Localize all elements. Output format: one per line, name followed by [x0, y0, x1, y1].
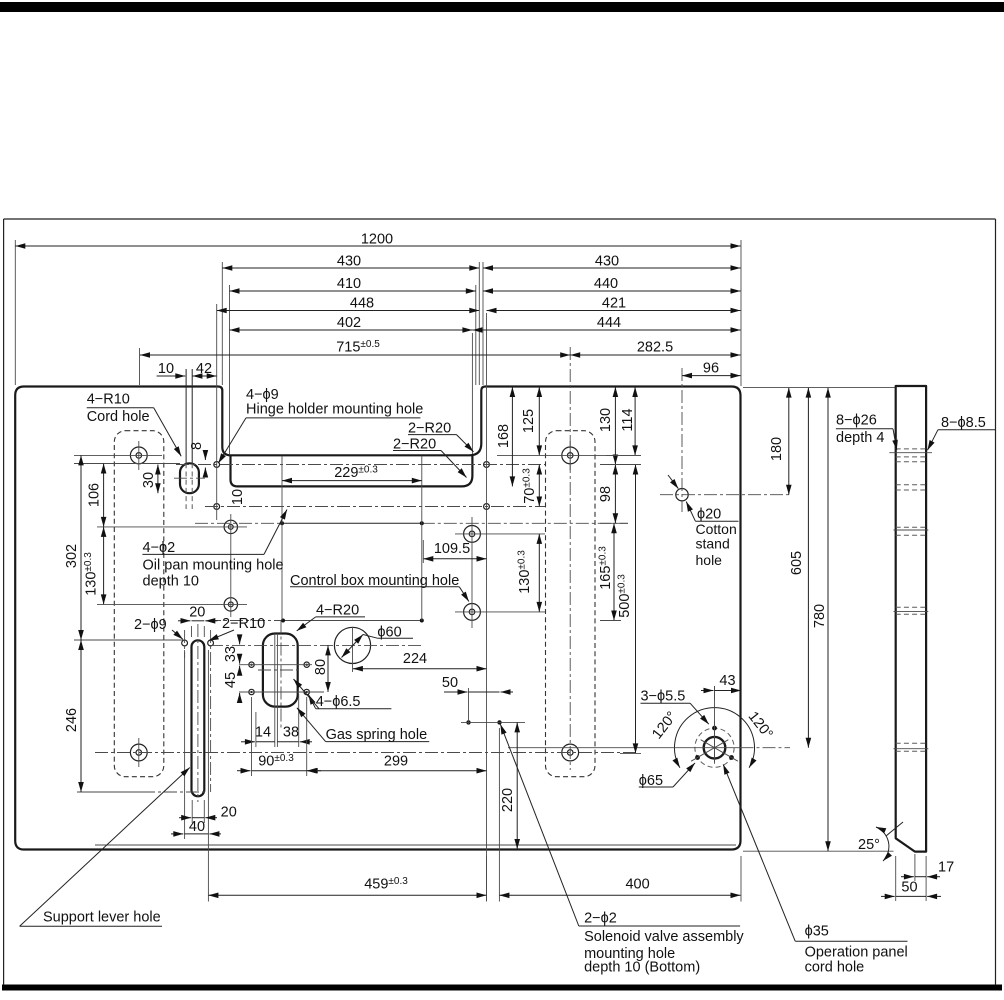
svg-text:168: 168: [496, 424, 512, 448]
svg-text:246: 246: [64, 708, 80, 732]
svg-text:Operation panel: Operation panel: [805, 945, 908, 961]
svg-text:430: 430: [595, 254, 619, 270]
svg-text:30: 30: [141, 472, 157, 488]
svg-text:33: 33: [223, 646, 239, 662]
svg-text:40: 40: [189, 819, 205, 835]
svg-text:42: 42: [196, 361, 212, 377]
svg-text:14: 14: [255, 725, 271, 741]
svg-text:410: 410: [337, 276, 361, 292]
svg-text:282.5: 282.5: [637, 340, 673, 356]
svg-text:780: 780: [812, 604, 828, 628]
svg-text:depth 10: depth 10: [143, 574, 199, 590]
svg-text:stand: stand: [696, 536, 730, 552]
svg-text:Cord hole: Cord hole: [87, 409, 150, 425]
svg-text:402: 402: [337, 315, 361, 331]
svg-text:depth 10 (Bottom): depth 10 (Bottom): [584, 959, 700, 975]
svg-text:Hinge holder mounting hole: Hinge holder mounting hole: [246, 402, 423, 418]
svg-text:106: 106: [87, 483, 103, 507]
svg-text:10: 10: [230, 489, 246, 505]
svg-text:220: 220: [500, 788, 516, 812]
svg-text:50: 50: [901, 880, 917, 896]
svg-text:2−ϕ9: 2−ϕ9: [134, 617, 167, 633]
svg-text:hole: hole: [696, 552, 723, 568]
svg-text:38: 38: [283, 725, 299, 741]
svg-text:cord hole: cord hole: [805, 959, 865, 975]
svg-text:17: 17: [938, 860, 954, 876]
svg-text:80: 80: [313, 659, 329, 675]
svg-text:Gas spring hole: Gas spring hole: [326, 727, 428, 743]
svg-text:1200: 1200: [361, 232, 393, 248]
svg-text:421: 421: [602, 296, 626, 312]
svg-text:4−ϕ9: 4−ϕ9: [246, 387, 279, 403]
svg-text:Oil pan mounting hole: Oil pan mounting hole: [143, 557, 284, 573]
svg-text:444: 444: [597, 315, 621, 331]
svg-text:400: 400: [625, 877, 649, 893]
svg-text:605: 605: [789, 551, 805, 575]
svg-text:4−R20: 4−R20: [316, 602, 359, 618]
svg-text:45: 45: [223, 672, 239, 688]
svg-text:4−R10: 4−R10: [87, 392, 130, 408]
svg-text:43: 43: [719, 673, 735, 689]
svg-text:109.5: 109.5: [434, 541, 470, 557]
svg-text:98: 98: [598, 486, 614, 502]
svg-text:20: 20: [189, 605, 205, 621]
svg-text:8−ϕ26: 8−ϕ26: [836, 413, 877, 429]
svg-text:10: 10: [158, 361, 174, 377]
svg-text:ϕ35: ϕ35: [805, 923, 829, 939]
svg-text:2−R20: 2−R20: [393, 436, 436, 452]
svg-text:448: 448: [350, 296, 374, 312]
svg-text:depth 4: depth 4: [836, 430, 884, 446]
svg-text:3−ϕ5.5: 3−ϕ5.5: [641, 689, 686, 705]
svg-text:2−ϕ2: 2−ϕ2: [584, 910, 617, 926]
svg-text:20: 20: [221, 804, 237, 820]
svg-text:96: 96: [703, 361, 719, 377]
svg-text:50: 50: [442, 675, 458, 691]
svg-text:2−R20: 2−R20: [408, 420, 451, 436]
svg-text:114: 114: [620, 408, 636, 431]
svg-text:4−ϕ6.5: 4−ϕ6.5: [316, 694, 361, 710]
svg-text:25°: 25°: [858, 837, 880, 853]
svg-text:125: 125: [521, 409, 537, 433]
svg-text:299: 299: [384, 754, 408, 770]
svg-text:8−ϕ8.5: 8−ϕ8.5: [941, 415, 986, 431]
svg-text:Cotton: Cotton: [696, 521, 737, 537]
svg-text:130: 130: [598, 408, 614, 432]
svg-text:180: 180: [769, 437, 785, 461]
svg-text:224: 224: [403, 651, 427, 667]
svg-text:8: 8: [189, 442, 205, 450]
svg-text:440: 440: [594, 276, 618, 292]
svg-text:Support lever hole: Support lever hole: [43, 909, 161, 925]
svg-text:302: 302: [64, 544, 80, 568]
svg-text:4−ϕ2: 4−ϕ2: [143, 540, 176, 556]
svg-text:430: 430: [337, 254, 361, 270]
svg-text:2−R10: 2−R10: [222, 616, 265, 632]
svg-text:Solenoid valve assembly: Solenoid valve assembly: [584, 929, 744, 945]
